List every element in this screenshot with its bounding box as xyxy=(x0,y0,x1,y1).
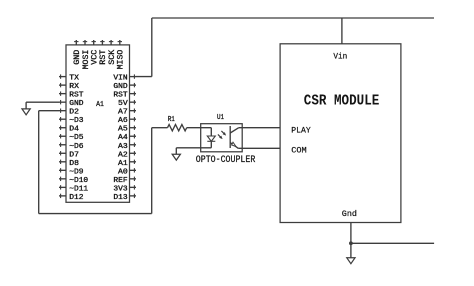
transistor U1 base bar xyxy=(229,126,231,148)
led U1 cathode bar xyxy=(207,140,215,142)
svg-text:GND: GND xyxy=(73,49,82,64)
pin D4 (A1 left 7) xyxy=(59,127,66,129)
ground (opto LED) xyxy=(172,154,180,160)
wire LED cathode to ground xyxy=(176,147,211,149)
wire A1 GND to ground xyxy=(26,101,59,103)
svg-text:COM: COM xyxy=(291,146,306,155)
wire A1 VIN pin to riser xyxy=(136,76,152,78)
transistor U1 emitter xyxy=(230,143,238,149)
led U1 triangle xyxy=(207,136,215,141)
svg-text:GND: GND xyxy=(113,83,127,91)
svg-text:SCK: SCK xyxy=(108,49,117,64)
svg-text:~D5: ~D5 xyxy=(69,134,83,142)
wire CSR Vin drop xyxy=(341,18,343,44)
pin RST (A1 top 4) xyxy=(101,40,103,45)
pin RX (A1 left 2) xyxy=(59,84,66,86)
svg-text:A4: A4 xyxy=(118,134,128,142)
svg-text:VIN: VIN xyxy=(113,75,127,83)
ground (CSR Gnd) xyxy=(347,258,355,264)
pin ~D11 (A1 left 14) xyxy=(59,186,66,188)
svg-text:RST: RST xyxy=(113,92,127,100)
svg-text:A2: A2 xyxy=(118,151,128,159)
pin D13 (A1 right 15) xyxy=(130,195,137,197)
pin GND (A1 left 4) xyxy=(59,101,66,103)
wire D2 bottom run xyxy=(39,213,152,215)
wire VIN-net top horizontal xyxy=(152,17,434,19)
svg-text:A0: A0 xyxy=(118,168,128,176)
transistor U1 emitter arrow xyxy=(232,142,236,146)
pin ~D5 (A1 left 8) xyxy=(59,135,66,137)
pin A1 (A1 right 11) xyxy=(130,161,137,163)
pin ~D9 (A1 left 12) xyxy=(59,169,66,171)
pin A4 (A1 right 8) xyxy=(130,135,137,137)
light arrow 2 xyxy=(221,131,224,134)
pin 5V (A1 right 4) xyxy=(130,101,137,103)
svg-text:A3: A3 xyxy=(118,143,128,151)
svg-text:R1: R1 xyxy=(168,116,175,124)
pin RST (A1 left 3) xyxy=(59,93,66,95)
pin D7 (A1 left 10) xyxy=(59,152,66,154)
light arrow 1 xyxy=(218,134,221,137)
module CSR box xyxy=(280,44,401,223)
wire R1 to opto xyxy=(187,127,212,129)
pin ~D3 (A1 left 6) xyxy=(59,118,66,120)
svg-text:U1: U1 xyxy=(217,114,224,122)
svg-text:3V3: 3V3 xyxy=(113,185,127,193)
pin ~D6 (A1 left 9) xyxy=(59,144,66,146)
wire D2 left drop xyxy=(39,110,59,112)
svg-text:RX: RX xyxy=(69,83,80,91)
svg-text:A6: A6 xyxy=(118,117,128,125)
svg-text:A1: A1 xyxy=(96,101,104,109)
wire VIN-net riser xyxy=(151,18,153,77)
pin VCC (A1 top 3) xyxy=(93,40,95,45)
pin RST (A1 right 3) xyxy=(130,93,137,95)
wire to R1 xyxy=(152,127,168,129)
resistor R1 xyxy=(168,125,187,131)
pin TX (A1 left 1) xyxy=(59,76,66,78)
svg-text:~D9: ~D9 xyxy=(69,168,83,176)
svg-text:PLAY: PLAY xyxy=(291,127,310,136)
led U1 cathode line xyxy=(210,141,212,148)
junction dot xyxy=(349,241,353,245)
svg-text:A7: A7 xyxy=(118,109,128,117)
transistor U1 collector xyxy=(230,128,239,133)
wire COM xyxy=(238,147,280,149)
svg-text:VCC: VCC xyxy=(90,49,99,64)
pin A2 (A1 right 10) xyxy=(130,152,137,154)
svg-text:MISO: MISO xyxy=(117,49,126,69)
pin ~D10 (A1 left 13) xyxy=(59,178,66,180)
pin A5 (A1 right 7) xyxy=(130,127,137,129)
svg-text:D13: D13 xyxy=(113,194,127,202)
pin A3 (A1 right 9) xyxy=(130,144,137,146)
pin D12 (A1 left 15) xyxy=(59,195,66,197)
wire Gnd horizontal xyxy=(351,242,434,244)
pin GND (A1 right 2) xyxy=(130,84,137,86)
svg-text:~D6: ~D6 xyxy=(69,143,83,151)
svg-text:CSR MODULE: CSR MODULE xyxy=(304,93,380,109)
svg-text:D2: D2 xyxy=(69,109,79,117)
svg-text:D7: D7 xyxy=(69,151,79,159)
svg-text:A5: A5 xyxy=(118,126,128,134)
svg-text:OPTO-COUPLER: OPTO-COUPLER xyxy=(196,154,256,166)
svg-text:GND: GND xyxy=(69,100,83,108)
svg-text:TX: TX xyxy=(69,75,80,83)
svg-text:D4: D4 xyxy=(69,126,79,134)
pin GND (A1 top 1) xyxy=(75,40,77,45)
svg-text:~D10: ~D10 xyxy=(69,177,88,185)
ground (A1 GND) xyxy=(22,109,30,115)
svg-text:~D3: ~D3 xyxy=(69,117,83,125)
svg-text:5V: 5V xyxy=(118,100,129,108)
svg-text:RST: RST xyxy=(69,92,83,100)
led U1 anode line xyxy=(210,128,212,136)
pin A6 (A1 right 6) xyxy=(130,118,137,120)
pin VIN (A1 right 1) xyxy=(130,76,137,78)
pin REF (A1 right 13) xyxy=(130,178,137,180)
opto-coupler U1 box xyxy=(201,124,243,152)
svg-text:Vin: Vin xyxy=(333,51,347,61)
svg-text:RST: RST xyxy=(99,49,108,64)
pin D8 (A1 left 11) xyxy=(59,161,66,163)
pin A0 (A1 right 12) xyxy=(130,169,137,171)
svg-text:REF: REF xyxy=(113,177,127,185)
svg-text:A1: A1 xyxy=(118,160,128,168)
pin SCK (A1 top 5) xyxy=(110,40,112,45)
svg-text:D12: D12 xyxy=(69,194,83,202)
wire PLAY xyxy=(239,127,280,129)
pin D2 (A1 left 5) xyxy=(59,110,66,112)
pin MISO (A1 top 6) xyxy=(119,40,121,45)
ic A1 body xyxy=(66,45,130,202)
svg-text:~D11: ~D11 xyxy=(69,185,88,193)
pin 3V3 (A1 right 14) xyxy=(130,186,137,188)
svg-text:MOSI: MOSI xyxy=(82,50,91,70)
pin A7 (A1 right 5) xyxy=(130,110,137,112)
svg-text:D8: D8 xyxy=(69,160,79,168)
svg-text:Gnd: Gnd xyxy=(342,209,357,219)
wire D2 riser to R1 xyxy=(151,128,153,214)
pin MOSI (A1 top 2) xyxy=(84,40,86,45)
wire CSR Gnd drop xyxy=(350,223,352,258)
